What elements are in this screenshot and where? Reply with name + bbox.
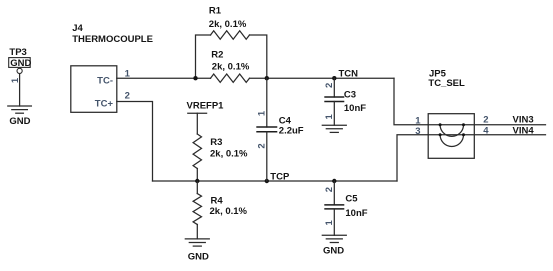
svg-text:THERMOCOUPLE: THERMOCOUPLE	[72, 34, 153, 45]
svg-text:R2: R2	[211, 50, 223, 61]
node junction C4 bottom on TCP	[265, 179, 269, 183]
wire TCN down to JP5 pin 1	[394, 78, 428, 125]
svg-text:1: 1	[324, 219, 335, 225]
ground symbol at C3	[322, 125, 346, 132]
svg-text:2: 2	[256, 143, 267, 148]
svg-text:R3: R3	[210, 137, 222, 148]
svg-text:TCN: TCN	[339, 68, 359, 79]
wire R4 top lead	[196, 181, 198, 194]
svg-text:1: 1	[324, 114, 335, 120]
wire TCP horizontal line	[153, 180, 398, 182]
svg-text:GND: GND	[188, 251, 209, 262]
svg-text:VREFP1: VREFP1	[187, 101, 225, 112]
svg-text:2k, 0.1%: 2k, 0.1%	[210, 206, 248, 217]
resistor R4	[193, 194, 201, 225]
node junction R3/R4 on TCP	[195, 179, 199, 183]
wire left branch up to R1	[196, 35, 211, 78]
node junction right of R2	[265, 76, 269, 80]
jumper JP5 shunt arc row2	[439, 133, 465, 146]
jumper JP5 labels	[428, 68, 465, 89]
svg-text:3: 3	[415, 126, 420, 137]
wire JP5 row1 through to VIN3	[428, 124, 545, 126]
resistor R4 labels	[210, 195, 248, 217]
wire J4 pin1 to R2 left node	[117, 77, 211, 79]
resistor R2	[211, 74, 250, 82]
power symbol VREFP1	[187, 101, 225, 134]
resistor R3	[193, 134, 201, 169]
capacitor C5	[324, 205, 344, 209]
svg-text:2k, 0.1%: 2k, 0.1%	[212, 61, 250, 72]
svg-text:2k, 0.1%: 2k, 0.1%	[209, 19, 247, 30]
svg-text:1: 1	[256, 110, 267, 116]
svg-text:10nF: 10nF	[344, 103, 366, 114]
wire J4 pin2 down to TCP line	[117, 102, 153, 182]
capacitor C4 top lead	[266, 78, 268, 127]
resistor R2 labels	[211, 50, 250, 73]
wire R2 right to TCN corner	[250, 77, 395, 79]
svg-text:GND: GND	[9, 116, 30, 127]
svg-text:R4: R4	[211, 195, 224, 206]
wire R3 to TCP line	[196, 169, 198, 182]
svg-text:TC_SEL: TC_SEL	[428, 78, 465, 89]
test point TP3 label	[9, 47, 26, 58]
svg-text:R1: R1	[209, 5, 222, 16]
capacitor C4	[256, 127, 277, 132]
wire JP5 row2 through to VIN4	[428, 134, 545, 136]
test point TP3 terminal circle	[17, 68, 22, 73]
svg-text:C3: C3	[344, 90, 356, 101]
capacitor C5 labels	[345, 193, 367, 219]
capacitor C3	[324, 97, 344, 102]
node junction at C3 tap	[332, 76, 336, 80]
wire TP3 to ground	[19, 74, 21, 106]
node junction C5 on TCP	[332, 179, 336, 183]
test point TP3 boxed GND	[9, 58, 32, 69]
svg-text:TC+: TC+	[95, 98, 114, 109]
jumper JP5 body	[428, 114, 474, 159]
capacitor C5 bottom lead	[333, 209, 335, 235]
svg-text:J4: J4	[72, 23, 83, 34]
svg-text:2: 2	[324, 83, 335, 88]
svg-text:2: 2	[324, 187, 335, 192]
resistor R1	[211, 31, 250, 39]
capacitor C3 top lead	[333, 78, 335, 97]
svg-text:VIN3: VIN3	[513, 115, 534, 126]
svg-text:2.2uF: 2.2uF	[279, 126, 304, 137]
ground symbol at TP3	[8, 106, 32, 127]
svg-text:GND: GND	[10, 58, 31, 69]
svg-text:TC-: TC-	[97, 75, 113, 86]
svg-text:2k, 0.1%: 2k, 0.1%	[210, 148, 248, 159]
svg-text:C5: C5	[345, 193, 358, 204]
wire R4 to ground	[196, 225, 198, 239]
capacitor C4 labels	[279, 115, 304, 136]
svg-text:VIN4: VIN4	[513, 125, 535, 136]
svg-text:GND: GND	[323, 246, 344, 257]
jumper JP5 shunt arc row1	[439, 123, 465, 136]
svg-text:2: 2	[483, 115, 488, 126]
resistor R3 labels	[210, 137, 248, 159]
resistor R1 labels	[209, 5, 247, 30]
capacitor C3 bottom lead	[333, 102, 335, 126]
capacitor C3 labels	[344, 90, 366, 114]
capacitor C4 bottom lead	[266, 132, 268, 181]
ground symbol at R4	[185, 239, 209, 262]
svg-text:TP3: TP3	[9, 47, 26, 58]
svg-text:1: 1	[415, 115, 421, 126]
connector J4 body	[71, 66, 117, 113]
connector J4 reference label	[72, 23, 153, 45]
svg-text:2: 2	[125, 91, 130, 102]
wire TCP up to JP5 pin 3	[397, 135, 428, 181]
node junction left of R2	[193, 76, 197, 80]
svg-text:10nF: 10nF	[345, 208, 367, 219]
wire R1 right branch down	[250, 35, 267, 78]
ground symbol at C5	[322, 235, 346, 256]
capacitor C5 top lead	[333, 181, 335, 205]
svg-text:TCP: TCP	[270, 171, 290, 182]
